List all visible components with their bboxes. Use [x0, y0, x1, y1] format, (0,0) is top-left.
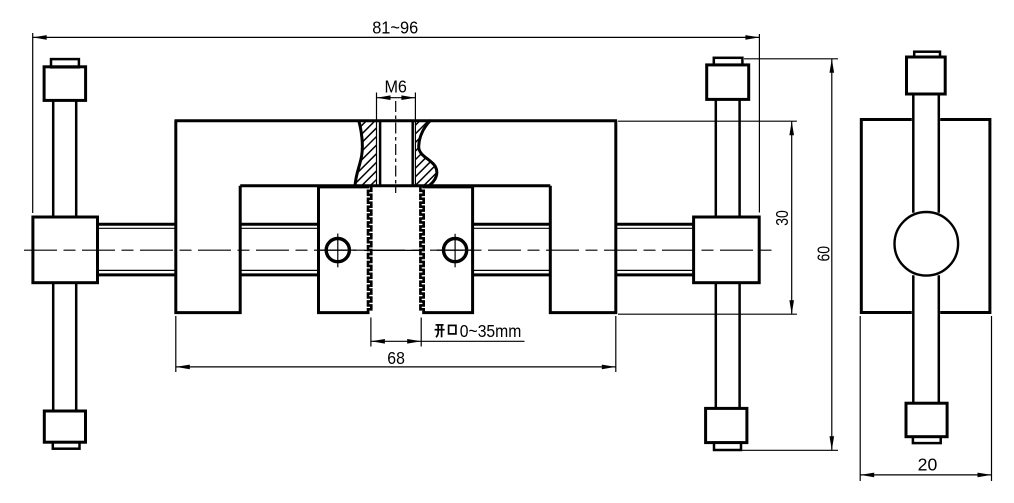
dimension 68 body width [175, 316, 177, 372]
svg-text:81~96: 81~96 [372, 18, 418, 38]
dimension 20 plate thickness [859, 316, 861, 481]
left screw lower stem [52, 283, 55, 411]
svg-text:20: 20 [918, 455, 938, 475]
right pin circle [444, 239, 467, 262]
M6 thread major diameter lines [376, 120, 378, 186]
left screw bottom knob [44, 411, 85, 442]
M6 hole bore lines [379, 120, 382, 186]
body inner ceiling edge [240, 184, 550, 187]
svg-text:M6: M6 [384, 77, 407, 97]
right screw top small cap [714, 58, 743, 65]
left jaw serrated face [368, 187, 371, 313]
right jaw serrated face [420, 187, 423, 313]
dimension opening 0~35mm [370, 318, 372, 347]
break-out wavy line right [419, 120, 437, 186]
side view top knob [907, 57, 946, 94]
svg-text:68: 68 [387, 348, 405, 368]
side view rod lower [912, 275, 915, 403]
side view rod upper [912, 94, 915, 213]
body top plate top edge [175, 119, 618, 122]
left screw top knob [44, 67, 86, 101]
left jaw block [319, 187, 370, 313]
label kai (open) glyph [435, 325, 445, 337]
body left leg [176, 121, 240, 313]
side view top small cap [914, 52, 940, 57]
right screw bottom small cap [714, 443, 741, 450]
svg-text:0~35mm: 0~35mm [460, 321, 522, 341]
dimension M6 thread [376, 93, 378, 120]
break-out wavy line left [355, 120, 362, 186]
side view body plate [861, 120, 912, 313]
left screw upper stem [52, 101, 55, 217]
section hatching right [342, 116, 511, 190]
side view ball/knob circle [895, 212, 959, 276]
side view bottom knob [906, 403, 947, 437]
screw rod (threaded) horizontal segments [98, 223, 176, 226]
left screw top small cap [51, 59, 79, 67]
left pin circle [326, 239, 349, 262]
dimension 60 overall height [744, 58, 838, 60]
right nut block [694, 217, 760, 283]
body right leg [550, 121, 616, 313]
centerline solid segment across jaw gap [364, 249, 422, 251]
right screw bottom knob [706, 408, 747, 442]
hole vertical centerline [395, 101, 397, 193]
right screw top knob [707, 65, 749, 100]
dimension 81~96 overall length [32, 33, 34, 213]
centerline: screw axis (front view) [24, 249, 772, 251]
svg-text:60: 60 [814, 246, 834, 262]
dimension 30 body height [618, 120, 797, 122]
right screw lower stem [715, 283, 718, 409]
label kou (mouth) glyph [449, 325, 456, 334]
right screw upper stem [715, 99, 718, 217]
left nut block [33, 217, 98, 283]
side view bottom small cap [913, 437, 941, 443]
svg-text:30: 30 [772, 210, 792, 226]
right jaw block [422, 187, 472, 313]
section hatching left [280, 116, 449, 190]
left screw bottom small cap [53, 442, 80, 449]
